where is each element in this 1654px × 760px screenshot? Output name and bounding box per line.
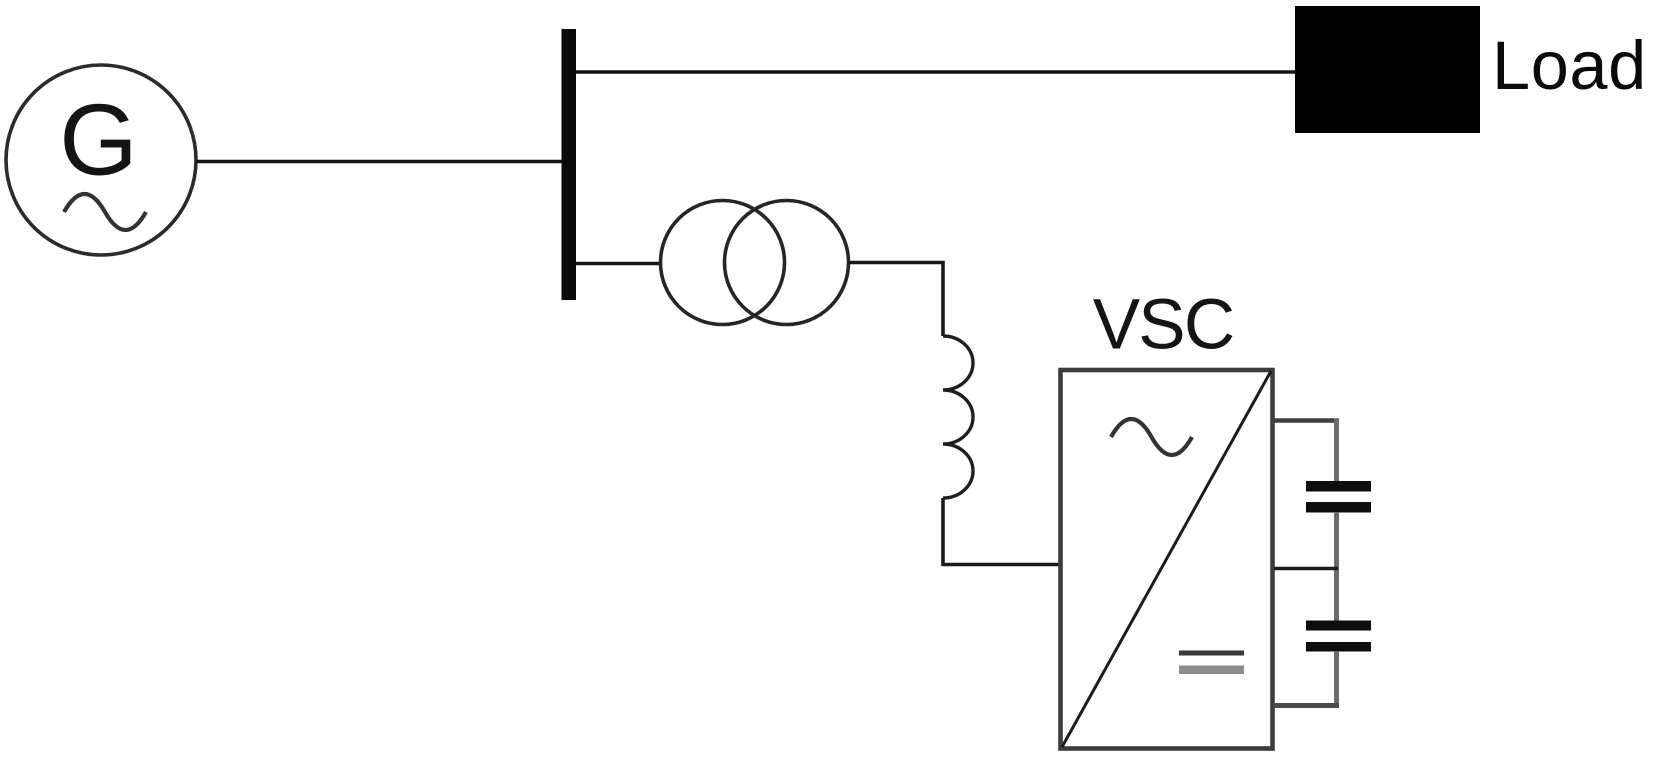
generator G1 sine symbol	[64, 194, 146, 230]
VSC DC-side equals symbol bottom bar	[1179, 666, 1244, 675]
capacitor C1 top plate	[1306, 481, 1371, 492]
capacitor C2 bottom plate	[1306, 642, 1371, 652]
VSC converter U1 box	[1061, 370, 1273, 749]
wire inductor to VSC	[943, 498, 1059, 565]
svg-text:G: G	[59, 85, 138, 197]
wire bus to transformer	[576, 262, 661, 266]
generator G1 circle	[6, 65, 196, 255]
VSC DC-side equals symbol top bar	[1179, 651, 1244, 656]
VSC AC-side sine symbol	[1111, 419, 1192, 455]
VSC converter U1 diagonal	[1062, 371, 1271, 747]
inductor L1 coil	[943, 336, 973, 498]
wire VSC to DC link midpoint	[1274, 567, 1338, 571]
load block	[1295, 6, 1480, 133]
DC link vertical wire middle segment	[1334, 512, 1339, 621]
transformer T1 primary winding	[661, 201, 785, 325]
capacitor C2 top plate	[1306, 621, 1371, 631]
svg-text:VSC: VSC	[1093, 286, 1234, 365]
wire generator to bus	[196, 160, 562, 164]
svg-text:Load: Load	[1492, 27, 1647, 104]
bus bar	[562, 29, 577, 300]
wire VSC to DC link bottom	[1273, 703, 1339, 708]
wire transformer to inductor	[849, 263, 944, 337]
wire VSC to DC link top	[1273, 418, 1339, 423]
wire bus to load	[576, 70, 1296, 74]
capacitor C1 bottom plate	[1306, 502, 1371, 513]
transformer T1 secondary winding	[725, 201, 849, 325]
DC link vertical wire lower segment	[1334, 651, 1339, 707]
DC link vertical wire upper segment	[1334, 419, 1339, 483]
